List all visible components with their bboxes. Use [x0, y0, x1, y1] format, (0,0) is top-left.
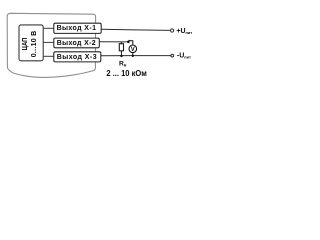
svg-text:Выход Х-1: Выход Х-1: [57, 25, 96, 32]
svg-text:V: V: [131, 47, 135, 53]
svg-text:2 ... 10 кОм: 2 ... 10 кОм: [106, 69, 147, 78]
svg-text:0...10 В: 0...10 В: [30, 31, 38, 58]
svg-text:Выход Х-2: Выход Х-2: [57, 40, 96, 47]
svg-text:Rн: Rн: [119, 60, 127, 67]
svg-text:+Uпит: +Uпит: [176, 28, 192, 35]
svg-text:Выход Х-3: Выход Х-3: [57, 54, 97, 61]
svg-text:ЦАП: ЦАП: [22, 38, 29, 51]
svg-text:-Uпит: -Uпит: [177, 53, 191, 60]
